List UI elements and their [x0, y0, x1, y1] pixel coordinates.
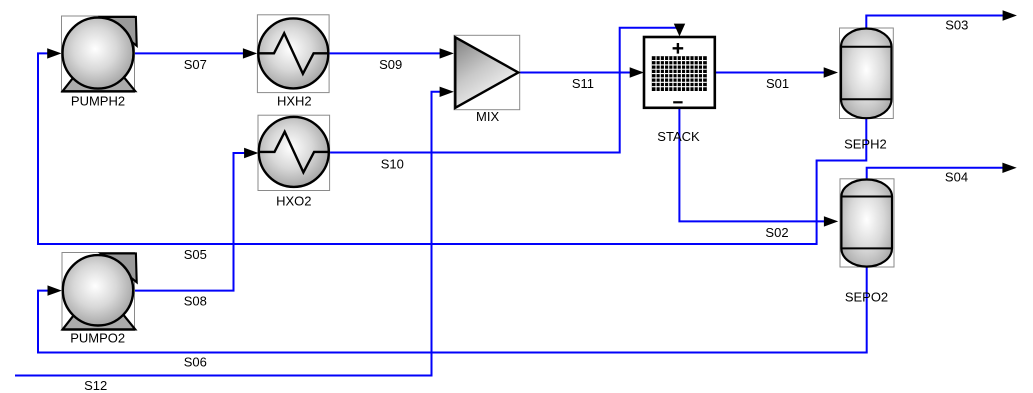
wire S11 MIX to STACK [519, 67, 644, 77]
svg-text:S09: S09 [379, 57, 402, 72]
svg-text:HXO2: HXO2 [276, 193, 311, 208]
wire S02 STACK bottom to SEPO2 [679, 108, 838, 227]
svg-text:STACK: STACK [657, 129, 700, 144]
heat exchanger HXH2 [257, 15, 329, 93]
svg-text:S05: S05 [184, 247, 207, 262]
pump PUMPO2 [62, 253, 137, 331]
svg-text:HXH2: HXH2 [277, 93, 312, 108]
svg-text:PUMPO2: PUMPO2 [70, 331, 125, 346]
separator SEPH2 [840, 28, 894, 119]
mixer MIX [454, 35, 520, 109]
wire S07 PUMPH2 to HXH2 [135, 48, 258, 58]
wire S03 SEPH2 top product [866, 10, 1017, 28]
svg-text:S02: S02 [765, 225, 788, 240]
svg-text:SEPH2: SEPH2 [844, 136, 887, 151]
wire S06 SEPO2 bottom to PUMPO2 inlet [38, 267, 867, 353]
svg-text:PUMPH2: PUMPH2 [71, 94, 125, 109]
svg-text:S10: S10 [381, 157, 404, 172]
svg-text:S08: S08 [184, 294, 207, 309]
wire S01 STACK to SEPH2 [715, 67, 838, 77]
svg-text:S06: S06 [184, 355, 207, 370]
wire S09 HXH2 to MIX [329, 48, 454, 58]
svg-text:MIX: MIX [476, 109, 499, 124]
svg-text:SEPO2: SEPO2 [845, 289, 888, 304]
svg-text:S01: S01 [766, 76, 789, 91]
wire S04 SEPO2 top product [867, 163, 1017, 180]
svg-text:S03: S03 [945, 17, 968, 32]
svg-text:S11: S11 [572, 76, 594, 91]
heat exchanger HXO2 [258, 115, 330, 190]
svg-text:S04: S04 [945, 170, 968, 185]
wire S10 HXO2 to STACK top [330, 24, 686, 153]
fuel cell stack STACK [644, 37, 715, 108]
wire S08 PUMPO2 to HXO2 [135, 148, 259, 291]
svg-text:S12: S12 [84, 378, 107, 393]
separator SEPO2 [840, 179, 894, 267]
wire S12 feed to MIX lower inlet [15, 87, 454, 376]
wire S05 SEPH2 bottom to PUMPH2 inlet [38, 48, 866, 244]
svg-text:S07: S07 [184, 57, 207, 72]
pump PUMPH2 [62, 16, 137, 93]
